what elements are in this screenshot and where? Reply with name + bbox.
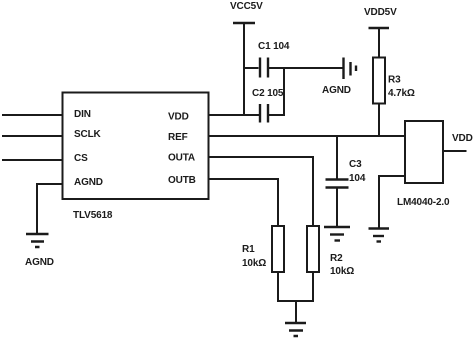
wire OUTB to R1 xyxy=(208,179,278,226)
wire REF net xyxy=(208,135,405,137)
svg-text:CS: CS xyxy=(74,153,88,164)
wire CS input xyxy=(2,159,62,161)
wire OUTA to R2 xyxy=(208,157,313,226)
ground below LM4040 xyxy=(369,227,390,229)
capacitor C3 top lead xyxy=(336,136,338,179)
svg-text:104: 104 xyxy=(349,173,366,184)
resistor R3 body xyxy=(373,58,385,104)
wire VDD pin to VCC rail xyxy=(208,114,259,116)
svg-text:VDD5V: VDD5V xyxy=(364,7,397,18)
capacitor C1 plates xyxy=(259,58,261,78)
svg-text:R1: R1 xyxy=(242,244,255,255)
power VCC5V rail xyxy=(243,23,245,116)
svg-text:AGND: AGND xyxy=(74,177,103,188)
resistor R1 body xyxy=(272,226,284,272)
svg-text:C2 105: C2 105 xyxy=(252,88,284,99)
svg-text:10kΩ: 10kΩ xyxy=(242,258,266,269)
svg-text:C1 104: C1 104 xyxy=(258,41,290,52)
ground below C3 xyxy=(324,226,350,228)
wire R1 R2 bottoms join xyxy=(277,272,279,302)
resistor R2 body xyxy=(307,226,319,272)
power VDD5V rail xyxy=(369,27,390,30)
capacitor C3 bottom lead xyxy=(336,188,338,227)
svg-text:OUTB: OUTB xyxy=(168,175,196,186)
svg-text:OUTA: OUTA xyxy=(168,153,195,164)
svg-text:LM4040-2.0: LM4040-2.0 xyxy=(397,197,450,208)
op-amp U1 TLV5618 body xyxy=(63,93,209,200)
svg-text:VDD: VDD xyxy=(452,133,473,144)
svg-text:10kΩ: 10kΩ xyxy=(330,266,354,277)
svg-text:AGND: AGND xyxy=(25,257,54,268)
wire AGND pin to ground xyxy=(37,184,62,234)
svg-text:SCLK: SCLK xyxy=(74,129,102,140)
wire SCLK input xyxy=(2,135,62,137)
wire C2 right to C1 right xyxy=(269,68,284,115)
svg-text:TLV5618: TLV5618 xyxy=(73,210,113,221)
ground AGND sideways xyxy=(342,58,344,80)
svg-text:R2: R2 xyxy=(330,253,343,264)
wire LM4040 anode to ground xyxy=(379,176,405,228)
wire C1 to AGND symbol xyxy=(269,67,343,69)
svg-text:VDD: VDD xyxy=(168,112,189,123)
wire DIN input xyxy=(2,114,62,116)
svg-text:C3: C3 xyxy=(349,159,362,170)
svg-text:REF: REF xyxy=(168,132,188,143)
capacitor C1 left wire xyxy=(243,67,259,69)
shunt reference U2 LM4040 body xyxy=(405,121,443,183)
svg-text:VCC5V: VCC5V xyxy=(230,1,263,12)
svg-text:DIN: DIN xyxy=(74,109,91,120)
wire R3 bottom to REF net xyxy=(378,104,380,138)
svg-text:R3: R3 xyxy=(388,75,401,86)
capacitor C2 plates xyxy=(259,104,261,123)
ground bottom xyxy=(285,322,306,325)
capacitor C3 plates xyxy=(326,178,349,180)
wire VDD output xyxy=(443,150,467,152)
svg-text:4.7kΩ: 4.7kΩ xyxy=(388,88,415,99)
svg-text:AGND: AGND xyxy=(322,85,351,96)
ground AGND left xyxy=(26,233,49,236)
